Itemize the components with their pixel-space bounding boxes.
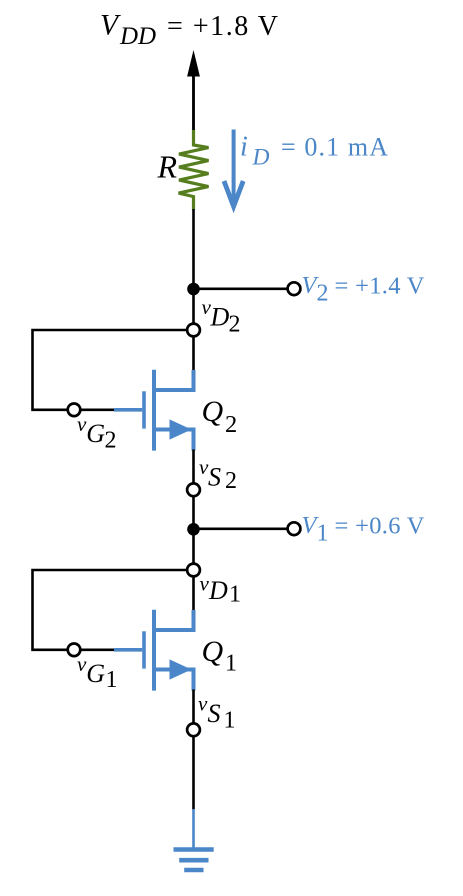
wire vD1 circle to Q1 drain xyxy=(192,576,195,611)
svg-text:= +1.8 V: = +1.8 V xyxy=(167,11,278,42)
svg-text:D: D xyxy=(210,303,230,332)
wire node A to vD2 circle xyxy=(192,294,195,324)
svg-text:= 0.1 mA: = 0.1 mA xyxy=(281,133,388,162)
current label iD = 0.1 mA xyxy=(240,132,388,171)
svg-text:1: 1 xyxy=(317,521,329,547)
node label vD2 xyxy=(202,295,241,338)
node label vG2 xyxy=(77,412,117,454)
node label vG1 xyxy=(77,652,118,693)
node vD2 open circle xyxy=(187,324,200,337)
terminal circle V2 xyxy=(288,282,301,295)
net label V1 = +0.6 V xyxy=(302,512,425,547)
svg-text:2: 2 xyxy=(225,411,237,438)
svg-text:v: v xyxy=(198,692,208,716)
wire Q1 source to vS1 circle xyxy=(192,690,195,724)
transistor label Q2 xyxy=(202,395,238,438)
terminal circle vG2 xyxy=(68,404,81,417)
svg-text:DD: DD xyxy=(119,23,156,50)
wire node B to vD1 circle xyxy=(192,534,195,564)
svg-text:= +0.6 V: = +0.6 V xyxy=(335,513,425,540)
svg-text:1: 1 xyxy=(225,651,237,677)
wire vS2 circle to node B xyxy=(192,496,195,524)
node B junction dot xyxy=(187,523,200,536)
terminal circle V1 xyxy=(288,522,301,535)
svg-text:Q: Q xyxy=(202,395,224,428)
svg-text:D: D xyxy=(252,145,270,171)
wire VDD arrow to resistor xyxy=(192,74,195,130)
wire vS1 circle to ground xyxy=(192,736,195,810)
resistor R1 xyxy=(179,129,209,210)
wire node B to V1 terminal xyxy=(194,527,288,530)
wire node A to V2 terminal xyxy=(194,287,288,290)
svg-text:G: G xyxy=(86,659,105,688)
svg-text:2: 2 xyxy=(317,281,329,307)
wire feedback loop Q2 (drain to gate) xyxy=(33,330,188,410)
svg-text:G: G xyxy=(86,419,105,448)
current arrow iD xyxy=(224,130,243,207)
svg-text:2: 2 xyxy=(229,312,241,338)
svg-text:1: 1 xyxy=(229,582,241,608)
wire vD2 circle to Q2 drain xyxy=(192,336,195,371)
svg-text:S: S xyxy=(208,463,221,492)
node vS1 open circle xyxy=(187,723,200,736)
wire Q2 source to vS2 circle xyxy=(192,450,195,484)
svg-text:R: R xyxy=(157,149,178,185)
svg-text:v: v xyxy=(200,572,210,596)
transistor label Q1 xyxy=(202,635,238,677)
svg-text:1: 1 xyxy=(106,667,118,693)
svg-text:2: 2 xyxy=(105,428,117,454)
node A junction dot xyxy=(187,283,200,296)
svg-text:2: 2 xyxy=(225,468,237,494)
transistor Q1 xyxy=(114,610,194,691)
svg-text:Q: Q xyxy=(202,635,224,668)
svg-text:1: 1 xyxy=(224,708,236,734)
node vD1 open circle xyxy=(187,564,200,577)
node label vS2 xyxy=(199,455,237,494)
node label vS1 xyxy=(198,692,236,734)
svg-text:S: S xyxy=(208,699,221,728)
svg-text:i: i xyxy=(240,132,248,163)
svg-text:D: D xyxy=(208,576,228,605)
node vS2 open circle xyxy=(187,483,200,496)
wire vG2 circle to gate lead xyxy=(81,408,115,411)
net label VDD = +1.8 V xyxy=(100,10,278,50)
ground xyxy=(174,809,214,870)
wire resistor to node A xyxy=(192,209,195,284)
net label V2 = +1.4 V xyxy=(302,272,425,307)
node label vD1 xyxy=(200,572,242,608)
wire feedback loop Q1 (drain to gate) xyxy=(33,570,188,650)
VDD supply arrow xyxy=(187,50,200,131)
transistor Q2 xyxy=(114,370,194,451)
wire vG1 circle to gate lead xyxy=(81,648,115,651)
terminal circle vG1 xyxy=(68,644,81,657)
svg-text:V: V xyxy=(100,10,121,42)
svg-text:= +1.4 V: = +1.4 V xyxy=(335,273,425,300)
